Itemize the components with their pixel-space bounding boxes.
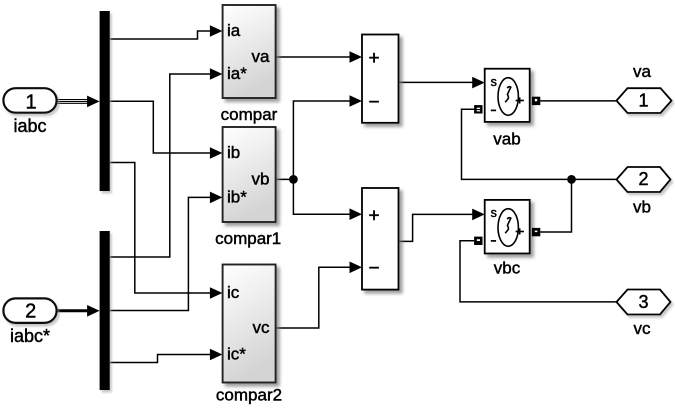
svg-text:vb: vb [633, 198, 651, 217]
svg-text:s: s [491, 75, 497, 89]
svg-text:1: 1 [25, 91, 36, 113]
svg-text:compar1: compar1 [215, 229, 281, 248]
svg-text:ib*: ib* [227, 187, 247, 206]
svg-text:iabc*: iabc* [10, 326, 50, 346]
svg-text:3: 3 [638, 292, 648, 312]
svg-text:ib: ib [227, 143, 240, 162]
svg-text:vc: vc [253, 318, 271, 337]
svg-text:vbc: vbc [494, 259, 521, 278]
svg-text:ia*: ia* [227, 64, 247, 83]
svg-text:iabc: iabc [13, 116, 46, 136]
svg-text:+: + [368, 205, 379, 226]
svg-text:+: + [368, 48, 379, 69]
svg-text:vc: vc [634, 319, 652, 338]
svg-text:va: va [252, 47, 271, 66]
svg-text:va: va [633, 62, 652, 81]
svg-text:−: − [368, 258, 379, 279]
svg-text:2: 2 [638, 169, 648, 189]
svg-text:s: s [491, 206, 497, 220]
svg-text:compar: compar [221, 105, 278, 124]
svg-text:ia: ia [227, 21, 241, 40]
svg-text:ic: ic [227, 283, 240, 302]
svg-text:2: 2 [25, 301, 36, 323]
svg-text:compar2: compar2 [216, 386, 282, 405]
svg-text:vab: vab [493, 130, 520, 149]
svg-text:−: − [368, 92, 379, 113]
svg-text:ic*: ic* [227, 345, 246, 364]
svg-text:vb: vb [252, 169, 270, 188]
svg-text:1: 1 [638, 90, 648, 110]
